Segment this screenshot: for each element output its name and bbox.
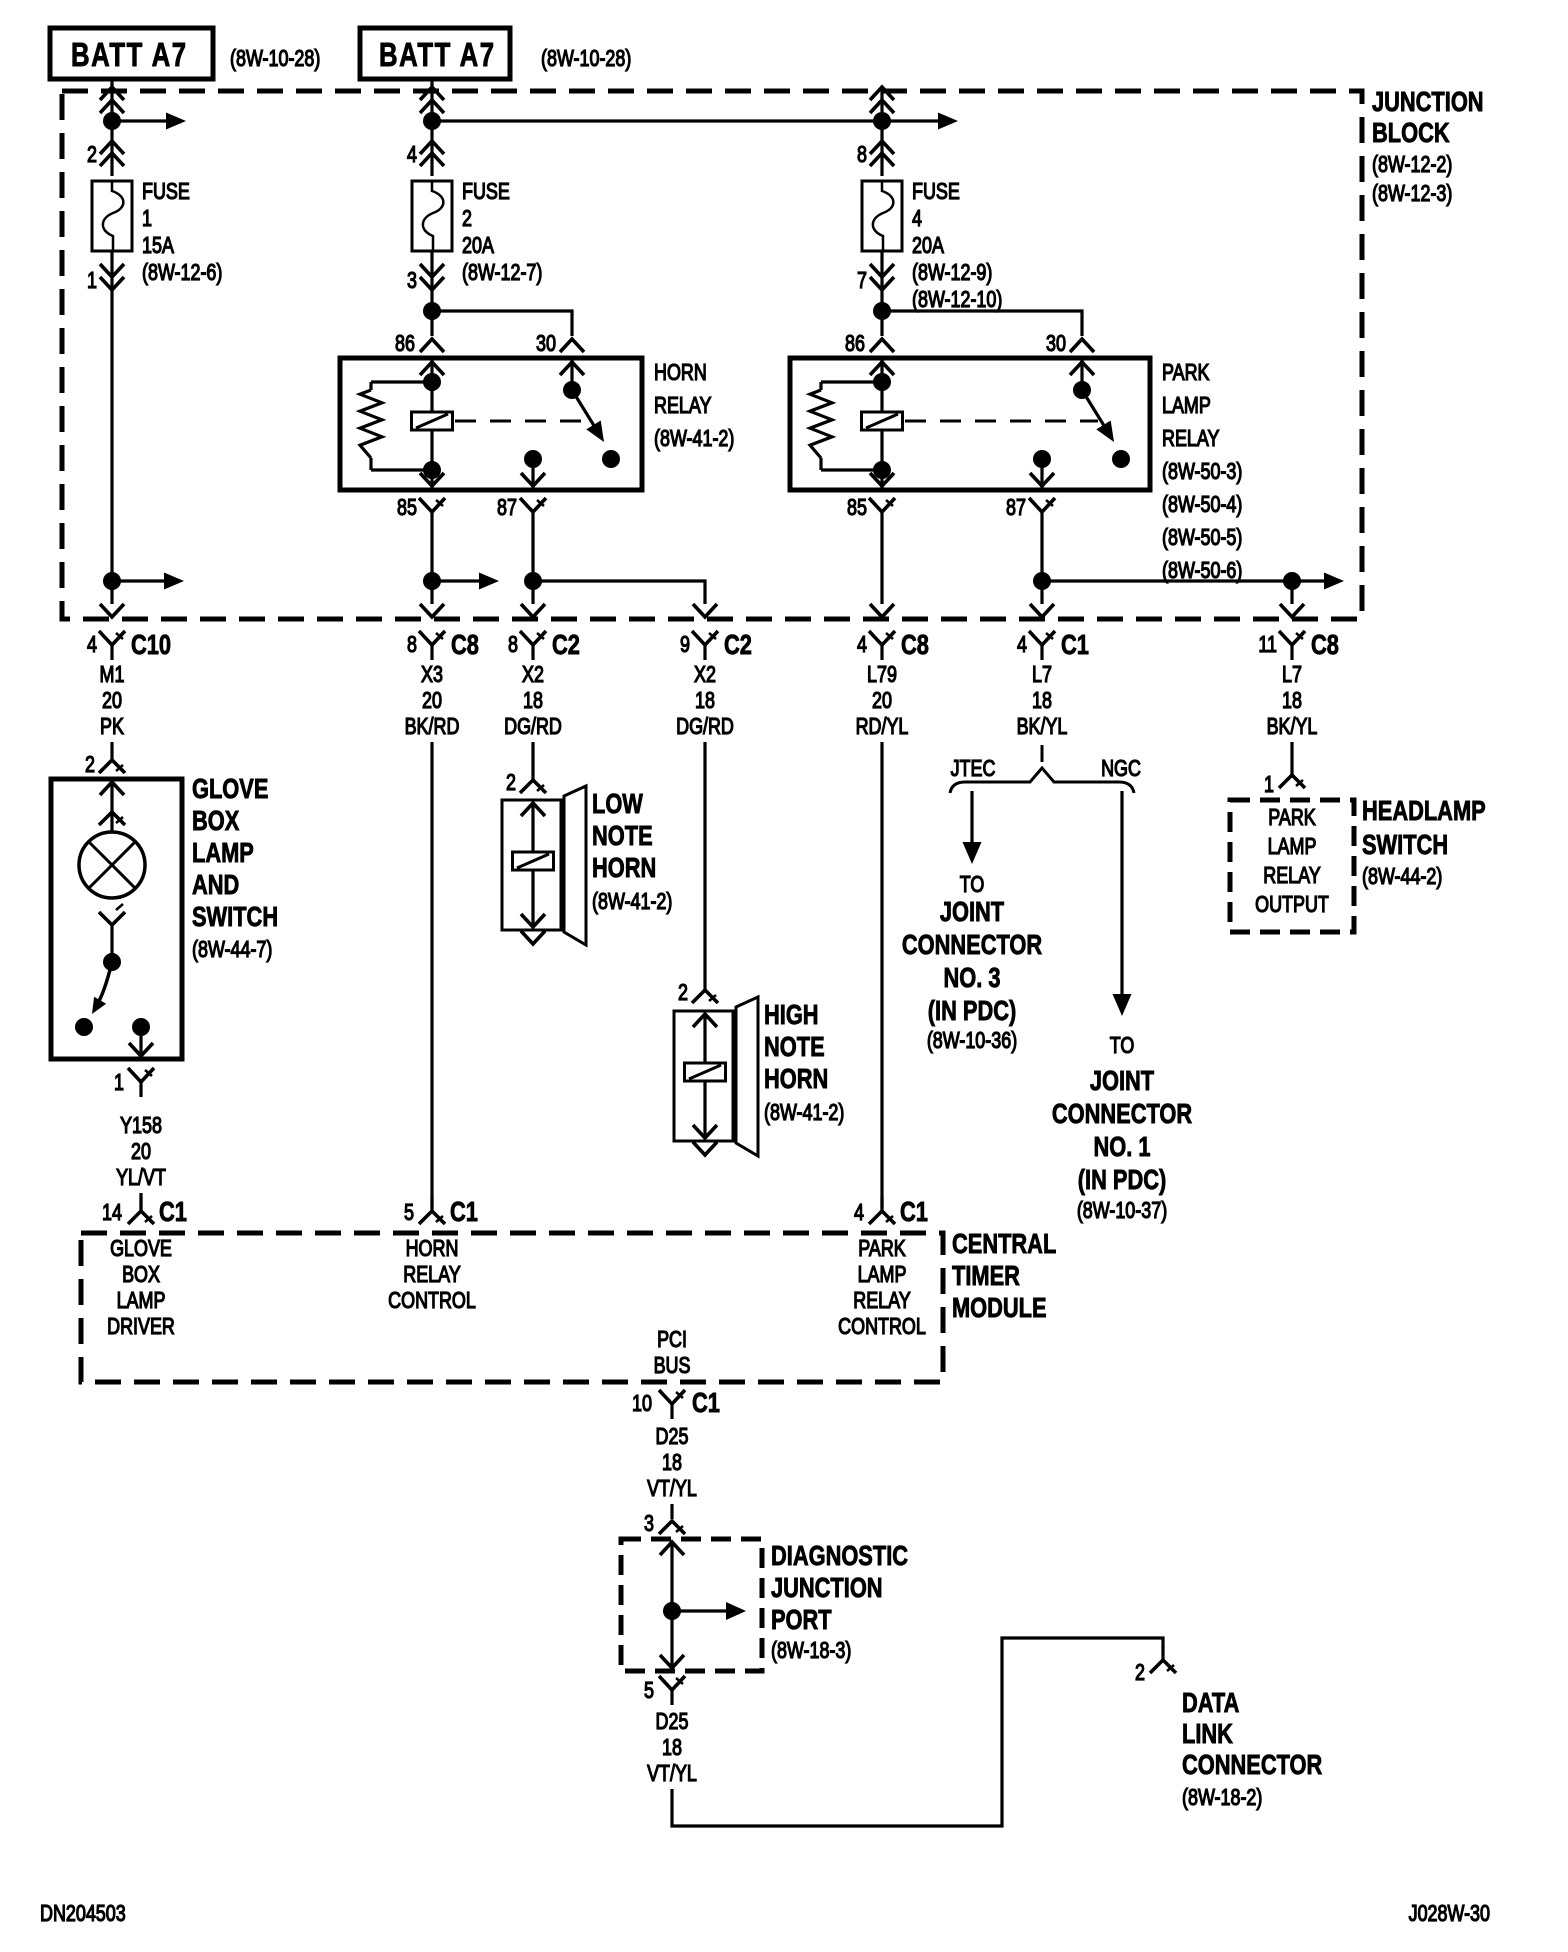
diagnostic port internal wire bbox=[660, 1541, 684, 1668]
svg-text:5: 5 bbox=[404, 1200, 414, 1226]
central timer module dashed box bbox=[81, 1233, 943, 1382]
label fuse 2 20A bbox=[462, 179, 542, 286]
svg-text:RELAY: RELAY bbox=[1162, 426, 1220, 452]
svg-text:OUTPUT: OUTPUT bbox=[1255, 892, 1329, 918]
svg-text:GLOVE: GLOVE bbox=[192, 773, 268, 804]
label to joint connector no 3 bbox=[902, 872, 1042, 1054]
svg-text:4: 4 bbox=[1017, 632, 1027, 658]
horn relay label bbox=[654, 360, 734, 452]
svg-text:J028W-30: J028W-30 bbox=[1409, 1901, 1490, 1927]
svg-text:BATT A7: BATT A7 bbox=[379, 37, 496, 74]
svg-text:MODULE: MODULE bbox=[952, 1292, 1047, 1323]
svg-text:86: 86 bbox=[845, 331, 865, 357]
label park lamp relay output bbox=[1255, 805, 1329, 918]
wire fuse 4 to park relay pin 86 bbox=[880, 251, 883, 336]
wire horn relay 87 to connector C2 bbox=[531, 527, 534, 604]
svg-text:10: 10 bbox=[632, 1391, 652, 1417]
high note horn bbox=[674, 997, 758, 1156]
svg-text:15A: 15A bbox=[142, 233, 174, 259]
data link connector label bbox=[1182, 1687, 1322, 1810]
svg-text:DN204503: DN204503 bbox=[40, 1901, 126, 1927]
svg-text:2: 2 bbox=[85, 752, 95, 778]
svg-text:C1: C1 bbox=[450, 1196, 478, 1227]
svg-text:20: 20 bbox=[422, 688, 442, 714]
arrow G1 to other circuits bbox=[1292, 573, 1344, 590]
border exit arrow B bbox=[420, 604, 444, 617]
svg-text:20: 20 bbox=[131, 1139, 151, 1165]
svg-text:(8W-41-2): (8W-41-2) bbox=[654, 426, 734, 452]
connector C8 pin 8 bbox=[407, 629, 479, 660]
svg-text:HIGH: HIGH bbox=[764, 999, 819, 1030]
svg-text:CONNECTOR: CONNECTOR bbox=[1182, 1749, 1322, 1780]
node junction A1 bbox=[103, 112, 121, 130]
wire batt feed 3 into junction block bbox=[870, 87, 894, 176]
svg-text:87: 87 bbox=[1006, 495, 1026, 521]
wire label D25 18 VT/YL upper bbox=[647, 1424, 697, 1502]
border exit arrow G bbox=[1280, 604, 1304, 617]
svg-text:NGC: NGC bbox=[1101, 756, 1141, 782]
svg-text:JUNCTION: JUNCTION bbox=[771, 1572, 883, 1603]
svg-text:30: 30 bbox=[1046, 331, 1066, 357]
node junction E2 bbox=[873, 302, 891, 320]
connector C1 pin 4 out bbox=[1017, 629, 1089, 660]
svg-text:30: 30 bbox=[536, 331, 556, 357]
connector pin 1 (fuse 1 out) bbox=[87, 264, 124, 294]
label (8W-10-28) left bbox=[230, 46, 320, 72]
svg-text:JOINT: JOINT bbox=[940, 896, 1005, 927]
svg-text:87: 87 bbox=[497, 495, 517, 521]
wire branch to high note horn column bbox=[533, 581, 705, 604]
svg-text:LINK: LINK bbox=[1182, 1718, 1233, 1749]
wire G1 down to border bbox=[1290, 581, 1293, 604]
svg-text:YL/VT: YL/VT bbox=[116, 1165, 166, 1191]
svg-text:PARK: PARK bbox=[1268, 805, 1316, 831]
svg-text:20: 20 bbox=[872, 688, 892, 714]
connector C2 pin 9 bbox=[680, 629, 752, 660]
border exit arrow D bbox=[693, 604, 717, 617]
svg-text:BUS: BUS bbox=[654, 1353, 691, 1379]
svg-text:DATA: DATA bbox=[1182, 1687, 1239, 1718]
svg-text:PORT: PORT bbox=[771, 1604, 832, 1635]
park relay pin 85 bbox=[847, 495, 895, 527]
svg-text:3: 3 bbox=[407, 268, 417, 294]
svg-text:LAMP: LAMP bbox=[1268, 834, 1317, 860]
fuse F1 bbox=[92, 181, 132, 251]
svg-text:X3: X3 bbox=[421, 662, 443, 688]
wire X2 to low note horn bbox=[531, 742, 534, 780]
fuse F4 bbox=[862, 181, 902, 251]
wire label Y158 20 YL/VT bbox=[116, 1113, 166, 1191]
svg-text:(8W-41-2): (8W-41-2) bbox=[592, 889, 672, 915]
svg-text:(8W-50-5): (8W-50-5) bbox=[1162, 525, 1242, 551]
svg-text:C10: C10 bbox=[131, 629, 171, 660]
park relay coil branch bbox=[862, 358, 903, 488]
svg-text:BK/YL: BK/YL bbox=[1267, 714, 1318, 740]
wire D25 to diagnostic junction port bbox=[670, 1504, 673, 1519]
wire park relay 85 to connector C8 bbox=[880, 527, 883, 604]
connector pin 1 headlamp switch bbox=[1264, 761, 1305, 798]
svg-text:VT/YL: VT/YL bbox=[647, 1476, 697, 1502]
svg-text:(8W-12-2): (8W-12-2) bbox=[1372, 152, 1452, 178]
glove box lamp bulb bbox=[79, 832, 145, 898]
wire stub to JTEC/NGC split bbox=[1041, 745, 1044, 762]
connector pin 8 (fuse 4 in) bbox=[857, 141, 894, 168]
node junction B1 bbox=[423, 112, 441, 130]
connector C8 pin 11 bbox=[1258, 629, 1339, 660]
svg-text:9: 9 bbox=[680, 632, 690, 658]
svg-text:CONNECTOR: CONNECTOR bbox=[902, 929, 1042, 960]
svg-text:18: 18 bbox=[695, 688, 715, 714]
headlamp switch dashed box bbox=[1230, 800, 1354, 932]
label PCI BUS bbox=[654, 1327, 691, 1379]
svg-text:M1: M1 bbox=[100, 662, 125, 688]
border exit arrow E bbox=[870, 604, 894, 617]
svg-text:AND: AND bbox=[192, 869, 239, 900]
NGC branch wire bbox=[1113, 791, 1132, 1016]
connector pin 2 high note horn bbox=[678, 980, 718, 1006]
svg-text:JUNCTION: JUNCTION bbox=[1372, 86, 1484, 117]
svg-text:NO. 1: NO. 1 bbox=[1093, 1131, 1150, 1162]
node junction B2 bbox=[423, 302, 441, 320]
connector pin 2 data link connector bbox=[1135, 1646, 1176, 1686]
glove box switch output contact bbox=[129, 1018, 153, 1058]
wire label L79 20 RD/YL bbox=[856, 662, 909, 740]
svg-text:2: 2 bbox=[87, 142, 97, 168]
svg-text:LAMP: LAMP bbox=[1162, 393, 1211, 419]
park lamp relay box bbox=[790, 358, 1150, 490]
wire label D25 18 VT/YL lower bbox=[647, 1709, 697, 1787]
svg-text:(8W-12-7): (8W-12-7) bbox=[462, 260, 542, 286]
wire L7 to headlamp switch bbox=[1290, 742, 1293, 761]
svg-text:5: 5 bbox=[644, 1678, 654, 1704]
svg-text:(8W-12-6): (8W-12-6) bbox=[142, 260, 222, 286]
svg-text:HORN: HORN bbox=[592, 852, 656, 883]
park lamp relay label bbox=[1162, 360, 1242, 584]
diagnostic junction port label bbox=[771, 1540, 908, 1663]
label (8W-10-28) middle bbox=[541, 46, 631, 72]
park relay switch bbox=[1070, 358, 1130, 468]
glove box switch bbox=[75, 904, 125, 1036]
svg-text:(8W-10-37): (8W-10-37) bbox=[1077, 1198, 1167, 1224]
svg-text:NO. 3: NO. 3 bbox=[943, 962, 1000, 993]
svg-text:CONTROL: CONTROL bbox=[838, 1314, 926, 1340]
connector pin 2 (fuse 1 in) bbox=[87, 141, 124, 168]
svg-text:14: 14 bbox=[102, 1200, 122, 1226]
svg-text:RD/YL: RD/YL bbox=[856, 714, 909, 740]
svg-text:TO: TO bbox=[1110, 1033, 1135, 1059]
svg-text:JTEC: JTEC bbox=[951, 756, 996, 782]
svg-text:SWITCH: SWITCH bbox=[192, 901, 278, 932]
svg-text:RELAY: RELAY bbox=[853, 1288, 911, 1314]
svg-text:1: 1 bbox=[87, 268, 97, 294]
wire label X2 18 DG/RD (low) bbox=[504, 662, 562, 740]
horn relay coil branch bbox=[412, 358, 453, 488]
node junction E1 bbox=[873, 112, 891, 130]
svg-text:2: 2 bbox=[1135, 1660, 1145, 1686]
connector C1 pin 5 bbox=[404, 1196, 478, 1227]
svg-text:TO: TO bbox=[960, 872, 985, 898]
connector C10 pin 4 bbox=[87, 629, 171, 660]
svg-text:BK/YL: BK/YL bbox=[1017, 714, 1068, 740]
svg-text:86: 86 bbox=[395, 331, 415, 357]
label to joint connector no 1 bbox=[1052, 1033, 1192, 1224]
svg-text:D25: D25 bbox=[656, 1709, 689, 1735]
svg-text:18: 18 bbox=[662, 1735, 682, 1761]
glove box lamp internal wire top bbox=[99, 781, 125, 832]
horn relay pin 85 bbox=[397, 495, 445, 527]
svg-text:RELAY: RELAY bbox=[403, 1262, 461, 1288]
svg-text:(IN PDC): (IN PDC) bbox=[1078, 1164, 1167, 1195]
svg-text:C1: C1 bbox=[1061, 629, 1089, 660]
connector pin 5 diagnostic port bbox=[644, 1676, 685, 1705]
svg-text:NOTE: NOTE bbox=[764, 1031, 825, 1062]
svg-text:C1: C1 bbox=[900, 1196, 928, 1227]
svg-text:RELAY: RELAY bbox=[654, 393, 712, 419]
fuse F2 bbox=[412, 181, 452, 251]
svg-text:DG/RD: DG/RD bbox=[504, 714, 562, 740]
svg-text:(8W-41-2): (8W-41-2) bbox=[764, 1100, 844, 1126]
svg-text:DG/RD: DG/RD bbox=[676, 714, 734, 740]
svg-text:HEADLAMP: HEADLAMP bbox=[1362, 795, 1486, 826]
svg-text:18: 18 bbox=[662, 1450, 682, 1476]
connector C1 pin 10 bbox=[632, 1387, 720, 1419]
svg-text:PARK: PARK bbox=[858, 1236, 906, 1262]
border exit arrow A bbox=[100, 604, 124, 617]
svg-text:LOW: LOW bbox=[592, 788, 643, 819]
svg-text:CONTROL: CONTROL bbox=[388, 1288, 476, 1314]
connector pin 2 glove box bbox=[85, 752, 125, 778]
svg-text:7: 7 bbox=[857, 268, 867, 294]
svg-text:L7: L7 bbox=[1282, 662, 1302, 688]
svg-text:1: 1 bbox=[114, 1070, 124, 1096]
svg-text:X2: X2 bbox=[522, 662, 544, 688]
JTEC / NGC variant split bbox=[950, 756, 1141, 793]
svg-text:C1: C1 bbox=[692, 1387, 720, 1418]
svg-text:1: 1 bbox=[1264, 772, 1274, 798]
svg-text:HORN: HORN bbox=[654, 360, 707, 386]
node junction F1 bbox=[1033, 572, 1051, 590]
border exit arrow C bbox=[521, 604, 545, 617]
connector C1 pin 4 bbox=[854, 1196, 928, 1227]
wire Y158 to CTM bbox=[139, 1193, 142, 1209]
svg-text:CENTRAL: CENTRAL bbox=[952, 1228, 1056, 1259]
low note horn bbox=[502, 786, 586, 945]
svg-text:C8: C8 bbox=[901, 629, 929, 660]
horn relay pin 30 bbox=[536, 331, 584, 357]
svg-text:4: 4 bbox=[912, 206, 922, 232]
svg-text:CONNECTOR: CONNECTOR bbox=[1052, 1098, 1192, 1129]
svg-text:4: 4 bbox=[87, 632, 97, 658]
footer sheet number DN204503 bbox=[40, 1901, 126, 1927]
wire label X2 18 DG/RD (high) bbox=[676, 662, 734, 740]
connector C2 pin 8 bbox=[508, 629, 580, 660]
connector pin 3 (fuse 2 out) bbox=[407, 264, 444, 294]
svg-text:(8W-10-28): (8W-10-28) bbox=[541, 46, 631, 72]
central timer module label bbox=[952, 1228, 1056, 1323]
svg-text:FUSE: FUSE bbox=[462, 179, 510, 205]
svg-text:(8W-44-2): (8W-44-2) bbox=[1362, 864, 1442, 890]
svg-text:DRIVER: DRIVER bbox=[107, 1314, 175, 1340]
wire X2 to high note horn bbox=[703, 742, 706, 990]
horn relay resistor bbox=[360, 382, 432, 470]
svg-text:(8W-12-3): (8W-12-3) bbox=[1372, 181, 1452, 207]
svg-text:PCI: PCI bbox=[657, 1327, 687, 1353]
svg-text:(8W-10-36): (8W-10-36) bbox=[927, 1028, 1017, 1054]
svg-text:18: 18 bbox=[1032, 688, 1052, 714]
label glove box lamp driver bbox=[107, 1236, 175, 1340]
svg-text:BK/RD: BK/RD bbox=[405, 714, 460, 740]
horn relay pin 87 contact bbox=[521, 450, 545, 488]
wire batt feed 1 into junction block bbox=[100, 79, 124, 176]
svg-text:LAMP: LAMP bbox=[117, 1288, 166, 1314]
svg-text:(8W-12-10): (8W-12-10) bbox=[912, 287, 1002, 313]
wire label L7 18 BK/YL bbox=[1017, 662, 1068, 740]
svg-text:(IN PDC): (IN PDC) bbox=[928, 995, 1017, 1026]
svg-text:2: 2 bbox=[506, 770, 516, 796]
svg-text:4: 4 bbox=[407, 142, 417, 168]
battery feed box BATT A7 (left) bbox=[50, 28, 213, 79]
horn relay pin 87 bbox=[497, 495, 546, 527]
svg-text:(8W-12-9): (8W-12-9) bbox=[912, 260, 992, 286]
wire M1 to glove box lamp bbox=[110, 742, 113, 760]
svg-text:HORN: HORN bbox=[764, 1063, 828, 1094]
svg-text:4: 4 bbox=[857, 632, 867, 658]
svg-text:RELAY: RELAY bbox=[1263, 863, 1321, 889]
wire L79 to CTM park lamp relay control bbox=[880, 742, 883, 1209]
connector pin 2 low note horn bbox=[506, 770, 546, 796]
svg-text:DIAGNOSTIC: DIAGNOSTIC bbox=[771, 1540, 908, 1571]
arrow A2 to other circuits bbox=[112, 573, 184, 590]
battery feed box BATT A7 (middle) bbox=[360, 28, 510, 79]
svg-text:FUSE: FUSE bbox=[142, 179, 190, 205]
svg-text:4: 4 bbox=[854, 1200, 864, 1226]
wire batt feed 2 into junction block bbox=[420, 79, 444, 176]
svg-text:HORN: HORN bbox=[406, 1236, 459, 1262]
horn relay switch bbox=[560, 358, 620, 468]
low note horn label bbox=[592, 788, 672, 914]
svg-text:BATT A7: BATT A7 bbox=[71, 37, 188, 74]
svg-text:L7: L7 bbox=[1032, 662, 1052, 688]
node junction B3 bbox=[423, 572, 441, 590]
connector pin 7 (fuse 4 out) bbox=[857, 264, 894, 294]
svg-text:2: 2 bbox=[678, 980, 688, 1006]
node junction A2 bbox=[103, 572, 121, 590]
JTEC branch arrow bbox=[963, 791, 982, 864]
wire fuse 1 to connector C10 bbox=[110, 251, 113, 604]
bus wire feed 2 to feed 3 with arrow bbox=[432, 113, 958, 130]
wire park relay 87 to connector C1 bbox=[1040, 527, 1043, 604]
park relay pin 87 bbox=[1006, 495, 1055, 527]
wire horn relay 85 to connector C8 bbox=[430, 527, 433, 604]
glove box lamp and switch box bbox=[51, 779, 182, 1059]
wire X3 to CTM horn relay control bbox=[430, 742, 433, 1209]
svg-text:(8W-50-4): (8W-50-4) bbox=[1162, 492, 1242, 518]
wire branch to headlamp switch column bbox=[1042, 579, 1292, 582]
diagnostic junction port dashed box bbox=[621, 1539, 762, 1671]
border exit arrow F bbox=[1030, 604, 1054, 617]
svg-text:C2: C2 bbox=[552, 629, 580, 660]
svg-text:L79: L79 bbox=[867, 662, 897, 688]
svg-text:GLOVE: GLOVE bbox=[110, 1236, 172, 1262]
wire D25 to data link connector bbox=[672, 1638, 1163, 1826]
arrow feed A to other circuits bbox=[112, 113, 186, 130]
svg-text:BOX: BOX bbox=[122, 1262, 160, 1288]
svg-text:11: 11 bbox=[1258, 632, 1277, 658]
label park lamp relay control bbox=[838, 1236, 926, 1340]
wire branch to park relay pin 30 bbox=[882, 311, 1082, 336]
junction block dashed border bbox=[62, 91, 1362, 619]
svg-text:PK: PK bbox=[100, 714, 124, 740]
horn relay pin 86 bbox=[395, 331, 444, 357]
svg-text:20: 20 bbox=[102, 688, 122, 714]
svg-text:(8W-44-7): (8W-44-7) bbox=[192, 937, 272, 963]
svg-text:BOX: BOX bbox=[192, 805, 240, 836]
connector pin 4 (fuse 2 in) bbox=[407, 141, 444, 168]
connector pin 3 diagnostic port bbox=[644, 1511, 685, 1537]
svg-text:85: 85 bbox=[847, 495, 867, 521]
svg-text:1: 1 bbox=[142, 206, 152, 232]
svg-text:TIMER: TIMER bbox=[952, 1260, 1020, 1291]
label horn relay control bbox=[388, 1236, 476, 1314]
svg-text:20A: 20A bbox=[912, 233, 944, 259]
glove box label bbox=[192, 773, 278, 962]
svg-text:VT/YL: VT/YL bbox=[647, 1761, 697, 1787]
svg-text:D25: D25 bbox=[656, 1424, 689, 1450]
svg-text:(8W-10-28): (8W-10-28) bbox=[230, 46, 320, 72]
svg-text:Y158: Y158 bbox=[120, 1113, 162, 1139]
svg-text:JOINT: JOINT bbox=[1090, 1065, 1155, 1096]
svg-text:8: 8 bbox=[508, 632, 518, 658]
park relay actuation dashed link bbox=[905, 420, 1098, 423]
horn relay actuation dashed link bbox=[455, 420, 588, 423]
park relay resistor bbox=[810, 382, 882, 470]
svg-text:18: 18 bbox=[523, 688, 543, 714]
connector pin 1 glove box out bbox=[114, 1068, 154, 1097]
label fuse 1 15A bbox=[142, 179, 222, 286]
svg-text:(8W-18-2): (8W-18-2) bbox=[1182, 1785, 1262, 1811]
svg-text:8: 8 bbox=[857, 142, 867, 168]
svg-text:20A: 20A bbox=[462, 233, 494, 259]
svg-text:BLOCK: BLOCK bbox=[1372, 117, 1450, 148]
node junction C1n bbox=[524, 572, 542, 590]
svg-text:C8: C8 bbox=[451, 629, 479, 660]
svg-text:PARK: PARK bbox=[1162, 360, 1210, 386]
svg-text:(8W-18-3): (8W-18-3) bbox=[771, 1638, 851, 1664]
wire fuse 2 to horn relay pin 86 bbox=[430, 251, 433, 336]
svg-text:SWITCH: SWITCH bbox=[1362, 829, 1448, 860]
svg-text:C1: C1 bbox=[159, 1196, 187, 1227]
svg-text:NOTE: NOTE bbox=[592, 820, 653, 851]
wire label L7 18 BK/YL (headlamp) bbox=[1267, 662, 1318, 740]
diagnostic port internal arrow bbox=[672, 1602, 746, 1620]
wire label X3 20 BK/RD bbox=[405, 662, 460, 740]
connector C1 pin 14 bbox=[102, 1196, 187, 1227]
label fuse 4 20A bbox=[912, 179, 1002, 313]
connector C8 pin 4 bbox=[857, 629, 929, 660]
svg-text:FUSE: FUSE bbox=[912, 179, 960, 205]
park relay pin 30 bbox=[1046, 331, 1094, 357]
svg-text:LAMP: LAMP bbox=[192, 837, 254, 868]
park relay pin 87 contact bbox=[1030, 450, 1054, 488]
wire branch to horn relay pin 30 bbox=[432, 311, 572, 336]
svg-text:8: 8 bbox=[407, 632, 417, 658]
high note horn label bbox=[764, 999, 844, 1125]
svg-text:18: 18 bbox=[1282, 688, 1302, 714]
horn relay box bbox=[340, 358, 642, 490]
park relay pin 86 bbox=[845, 331, 894, 357]
svg-text:X2: X2 bbox=[694, 662, 716, 688]
svg-text:2: 2 bbox=[462, 206, 472, 232]
